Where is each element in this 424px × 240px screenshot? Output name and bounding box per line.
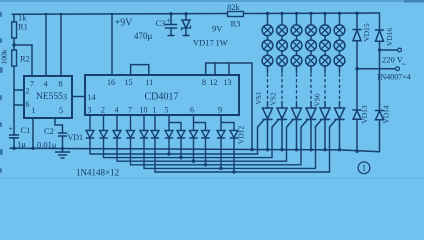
- svg-text:C3: C3: [156, 18, 166, 28]
- svg-text:VS2: VS2: [269, 92, 278, 106]
- svg-text:7: 7: [30, 80, 34, 89]
- svg-text:6: 6: [190, 106, 194, 115]
- svg-text:3: 3: [88, 106, 92, 115]
- svg-text:VS6: VS6: [313, 93, 322, 107]
- svg-text:R2: R2: [20, 54, 30, 64]
- svg-text:220 V: 220 V: [382, 55, 404, 65]
- svg-text:1μ: 1μ: [17, 139, 26, 149]
- svg-text:1W: 1W: [216, 38, 228, 48]
- svg-text:82k: 82k: [227, 2, 241, 12]
- svg-text:+: +: [9, 125, 14, 134]
- svg-text:100k: 100k: [0, 49, 9, 64]
- svg-text:5: 5: [165, 106, 169, 115]
- svg-text:3: 3: [63, 93, 67, 102]
- svg-text:10: 10: [140, 106, 148, 115]
- svg-text:~: ~: [402, 60, 407, 69]
- svg-text:VD12: VD12: [237, 126, 246, 145]
- svg-text:VD16: VD16: [385, 28, 394, 47]
- svg-text:NE555: NE555: [36, 92, 63, 102]
- svg-text:1: 1: [362, 163, 367, 173]
- svg-text:6: 6: [26, 100, 30, 109]
- svg-text:12: 12: [210, 78, 218, 87]
- svg-text:R3: R3: [231, 19, 241, 29]
- svg-text:R1: R1: [18, 22, 28, 32]
- svg-text:1N4007×4: 1N4007×4: [377, 73, 411, 82]
- svg-text:VD14: VD14: [381, 105, 390, 124]
- svg-text:8: 8: [202, 78, 206, 87]
- svg-text:4: 4: [115, 106, 119, 115]
- svg-text:+9V: +9V: [115, 18, 134, 29]
- svg-text:4: 4: [44, 80, 48, 89]
- svg-text:2: 2: [101, 106, 105, 115]
- svg-text:VS1: VS1: [254, 91, 263, 105]
- svg-text:VD17: VD17: [193, 38, 214, 48]
- svg-text:1: 1: [153, 106, 157, 115]
- svg-text:7: 7: [128, 106, 132, 115]
- svg-text:VD15: VD15: [362, 23, 371, 42]
- svg-text:5: 5: [59, 106, 63, 115]
- svg-text:C1: C1: [21, 125, 31, 135]
- svg-text:CD4017: CD4017: [145, 92, 179, 103]
- svg-text:9V: 9V: [212, 24, 223, 34]
- svg-text:16: 16: [107, 78, 115, 87]
- svg-text:8: 8: [59, 80, 63, 89]
- svg-text:2: 2: [26, 87, 30, 96]
- svg-text:470μ: 470μ: [134, 31, 153, 41]
- svg-text:1N4148×12: 1N4148×12: [76, 168, 119, 178]
- svg-text:0.01μ: 0.01μ: [37, 140, 57, 150]
- svg-text:9: 9: [218, 106, 222, 115]
- svg-text:13: 13: [224, 78, 232, 87]
- svg-text:11: 11: [146, 78, 154, 87]
- svg-text:C2: C2: [44, 126, 54, 136]
- svg-text:VD1: VD1: [68, 133, 84, 142]
- svg-text:VD13: VD13: [360, 105, 369, 124]
- svg-text:1: 1: [32, 106, 36, 115]
- svg-text:+: +: [166, 16, 171, 25]
- svg-text:15: 15: [125, 78, 133, 87]
- svg-text:14: 14: [88, 93, 96, 102]
